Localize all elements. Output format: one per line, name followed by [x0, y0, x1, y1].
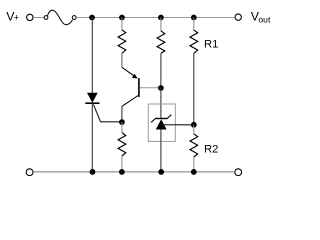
fuse — [44, 10, 76, 25]
node Vout label — [251, 10, 271, 25]
resistor gate (unlabeled) — [118, 133, 126, 157]
wire bottom rail — [33, 171, 234, 173]
wire gate resistor to bottom rail — [121, 156, 123, 172]
junction SCR cathode bottom — [90, 169, 96, 175]
wire base node to shunt regulator cathode — [160, 88, 162, 118]
transistor Q1 (PNP) — [122, 67, 140, 106]
wire collector to gate node — [121, 106, 123, 122]
wire top stub base resistor — [160, 18, 162, 31]
junction node A top — [89, 15, 95, 21]
wire SCR gate — [93, 104, 122, 121]
junction gate resistor bottom — [119, 169, 125, 175]
wire base — [140, 87, 161, 89]
terminal V+ — [27, 14, 33, 20]
svg-text:out: out — [258, 15, 271, 25]
wire divider node to R2 — [193, 125, 195, 134]
junction gate node — [119, 119, 125, 125]
wire gate node to gate resistor — [121, 122, 123, 133]
wire SCR anode — [91, 18, 93, 94]
wire R2 to bottom rail — [193, 157, 195, 172]
wire zener anode to bottom rail — [160, 129, 162, 171]
resistor emitter (unlabeled) — [118, 30, 126, 54]
resistor R1 — [190, 30, 198, 54]
junction top of emitter resistor — [119, 15, 125, 21]
wire emitter resistor to transistor — [121, 53, 123, 67]
wire base resistor to base node — [160, 53, 162, 88]
junction R2 bottom — [191, 169, 197, 175]
svg-text:+: + — [14, 13, 19, 23]
junction zener anode bottom — [158, 169, 164, 175]
svg-text:R1: R1 — [204, 38, 218, 50]
junction base node — [158, 85, 164, 91]
shunt regulator box U1 — [148, 104, 175, 141]
wire SCR cathode — [91, 104, 93, 172]
terminal bottom left — [26, 169, 33, 176]
terminal bottom right — [235, 169, 242, 176]
wire reference to divider node — [161, 124, 194, 126]
junction top of R1 — [191, 15, 197, 21]
wire top stub R1 — [193, 18, 195, 31]
terminal Vout — [235, 14, 241, 20]
wire V+ terminal to fuse — [33, 17, 44, 19]
zener diode (shunt reference) — [151, 115, 171, 130]
node V+ label — [6, 10, 19, 24]
wire fuse to node A — [76, 17, 92, 19]
resistor base (unlabeled) — [157, 31, 165, 54]
wire top stub emitter resistor — [121, 18, 123, 30]
wire R1 to divider node — [193, 53, 195, 124]
junction divider node — [191, 122, 197, 128]
junction top of base resistor — [158, 15, 164, 21]
resistor R2 — [190, 134, 198, 157]
wire top rail — [92, 17, 234, 19]
svg-text:R2: R2 — [204, 144, 218, 156]
SCR — [85, 93, 99, 104]
